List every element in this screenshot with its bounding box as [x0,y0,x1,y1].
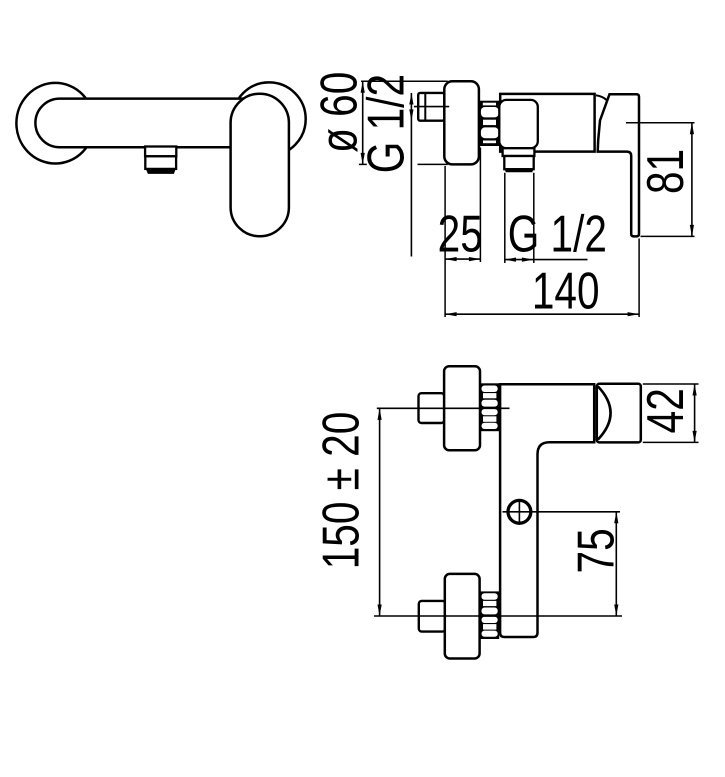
front view: right wall flange circle [232,82,305,155]
side view: 140 dimension line [445,313,639,315]
side view: outlet extension line left [504,173,506,263]
side view: 81 extension line bottom [641,235,695,237]
side view: wall flange [444,81,479,164]
side view: ø60 extension line bottom (segment to flange) [418,163,448,165]
side view: mixer barrel [500,94,594,152]
side view: lever underside curve [596,95,607,100]
front view: handle capsule [231,94,289,237]
bottom view: top inlet flange [444,366,480,450]
bottom view: bottom inlet nipple [419,601,446,632]
bottom view: 75 dimension line [615,512,617,616]
bottom view: top inlet axis line [377,407,510,409]
svg-text:81: 81 [637,149,695,194]
bottom view: 75 extension line top [503,511,621,513]
side view: outlet black band [504,168,533,172]
bottom view: screw mark vertical centerline [518,500,520,525]
side view: G1/2 outlet dimension line [505,259,588,261]
front view: shower outlet black band [145,168,176,174]
svg-text:25: 25 [438,206,483,264]
side view: handle [598,94,639,236]
side view: outlet ring 1 [503,148,535,156]
side view: ø60 extension line top [361,80,448,82]
side view: union nut thread [479,101,501,146]
front view: left wall flange circle [16,83,94,164]
side view: ø60 dimension line [362,81,364,164]
front view: shower outlet ring 2 [145,156,176,169]
side view: inlet nipple [418,93,444,121]
side view: cartridge cover [499,100,538,148]
bottom view: top inlet thread [480,383,499,431]
side view: 81 dimension line [691,123,693,237]
svg-text:G 1/2: G 1/2 [508,206,607,264]
bottom view: handle dome arc [598,386,611,439]
bottom view: 150 dimension line [379,408,381,616]
side view: outlet ring 2 [504,156,533,169]
svg-text:140: 140 [532,263,600,321]
side view: G1/2 nipple dimension line with tail [410,93,412,257]
bottom view: bottom inlet flange [445,574,480,659]
bottom view: screw mark circle [508,500,531,523]
side view: outlet extension line right [533,173,535,263]
side view: nipple axis tick [414,106,449,108]
bottom view: 42 extension line top [643,383,699,385]
bottom view: bottom inlet thread [480,591,500,639]
front view: mixer body [35,99,266,148]
svg-text:G 1/2: G 1/2 [357,74,415,173]
side view: 140 extension line right [638,239,640,318]
bottom view: handle [597,384,641,443]
bottom view: 42 dimension line [694,384,696,442]
bottom view: 42 extension line bottom [643,441,699,443]
side view: ø60 extension line bottom (tick at dim line) [359,163,367,165]
svg-text:150 ± 20: 150 ± 20 [312,412,370,570]
bottom view: top inlet nipple [419,393,445,423]
bottom view: bottom inlet axis line [374,615,622,617]
bottom view: body [500,384,594,637]
side view: 25 dimension line [445,258,480,260]
svg-text:75: 75 [568,528,626,573]
side view: 25/140 shared extension line at flange left [444,166,446,317]
svg-text:42: 42 [637,388,695,433]
side view: 81 extension line top [626,122,695,124]
front view: shower outlet ring 1 [145,147,176,157]
side view: 25 extension line right [479,148,481,263]
